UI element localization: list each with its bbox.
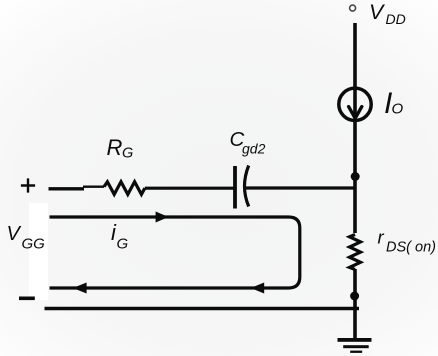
svg-text:G: G [122, 146, 133, 162]
svg-text:R: R [107, 135, 123, 160]
svg-text:V: V [369, 0, 386, 24]
svg-text:GG: GG [22, 236, 46, 253]
svg-text:gd2: gd2 [242, 141, 266, 157]
svg-text:DS( on): DS( on) [386, 240, 436, 256]
svg-text:G: G [117, 236, 129, 253]
svg-text:r: r [378, 227, 385, 248]
svg-text:V: V [7, 223, 22, 245]
svg-text:O: O [392, 101, 404, 118]
svg-text:DD: DD [386, 11, 406, 27]
